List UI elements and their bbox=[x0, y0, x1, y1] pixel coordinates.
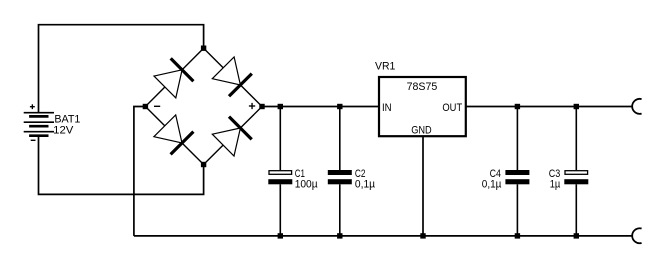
wire bridge left-to-bottom bbox=[145, 107, 203, 165]
capacitor C1 bbox=[268, 107, 292, 236]
regulator VR1 box bbox=[379, 77, 466, 136]
svg-text:100µ: 100µ bbox=[295, 178, 319, 190]
wire regulator OUT rail bbox=[466, 106, 632, 108]
battery minus sign bbox=[31, 139, 36, 141]
node C4 top bbox=[515, 104, 520, 109]
capacitor C2 bbox=[328, 107, 352, 236]
connector output plus bbox=[632, 99, 641, 114]
wire bridge left-to-top bbox=[145, 48, 203, 106]
node bridge left bbox=[143, 104, 148, 109]
wire bridge top-to-right bbox=[204, 48, 262, 106]
capacitor C4 bbox=[505, 107, 529, 236]
node bridge top bbox=[201, 46, 206, 51]
diode D4 bbox=[212, 117, 251, 156]
node GND bottom bbox=[420, 233, 425, 238]
wire battery plus to bridge top bbox=[39, 25, 204, 113]
label plus at bridge right node bbox=[249, 103, 255, 109]
node C3 bottom bbox=[574, 233, 579, 238]
battery plus sign bbox=[30, 104, 35, 109]
connector output minus bbox=[632, 228, 641, 243]
wire plus rail to regulator IN bbox=[262, 106, 379, 108]
svg-text:OUT: OUT bbox=[442, 102, 462, 114]
node C1 top bbox=[278, 104, 283, 109]
battery BAT1 bbox=[24, 113, 54, 136]
node C4 bottom bbox=[515, 233, 520, 238]
svg-text:GND: GND bbox=[411, 124, 432, 136]
node C2 bottom bbox=[337, 233, 342, 238]
svg-text:0,1µ: 0,1µ bbox=[355, 178, 376, 190]
diode D1 bbox=[154, 58, 193, 98]
wire regulator GND to bottom rail bbox=[422, 136, 424, 236]
node C3 top bbox=[574, 104, 579, 109]
svg-text:12V: 12V bbox=[53, 125, 74, 137]
svg-text:78S75: 78S75 bbox=[407, 81, 438, 93]
wire battery minus to bridge bottom bbox=[39, 136, 204, 195]
diode D2 bbox=[212, 57, 252, 96]
capacitor C3 bbox=[564, 107, 588, 236]
svg-text:VR1: VR1 bbox=[375, 61, 395, 73]
wire bottom rail bbox=[134, 235, 632, 237]
svg-text:IN: IN bbox=[382, 102, 392, 114]
diode D3 bbox=[154, 115, 194, 154]
node bridge bottom bbox=[201, 162, 206, 167]
label minus at bridge left node bbox=[154, 105, 160, 107]
wire bridge minus node to bottom rail bbox=[134, 107, 146, 236]
wire bridge bottom-to-right bbox=[204, 107, 262, 165]
node C2 top bbox=[337, 104, 342, 109]
svg-text:1µ: 1µ bbox=[550, 178, 561, 190]
svg-text:0,1µ: 0,1µ bbox=[482, 178, 502, 190]
node C1 bottom bbox=[278, 233, 283, 238]
node bridge right bbox=[259, 104, 264, 109]
